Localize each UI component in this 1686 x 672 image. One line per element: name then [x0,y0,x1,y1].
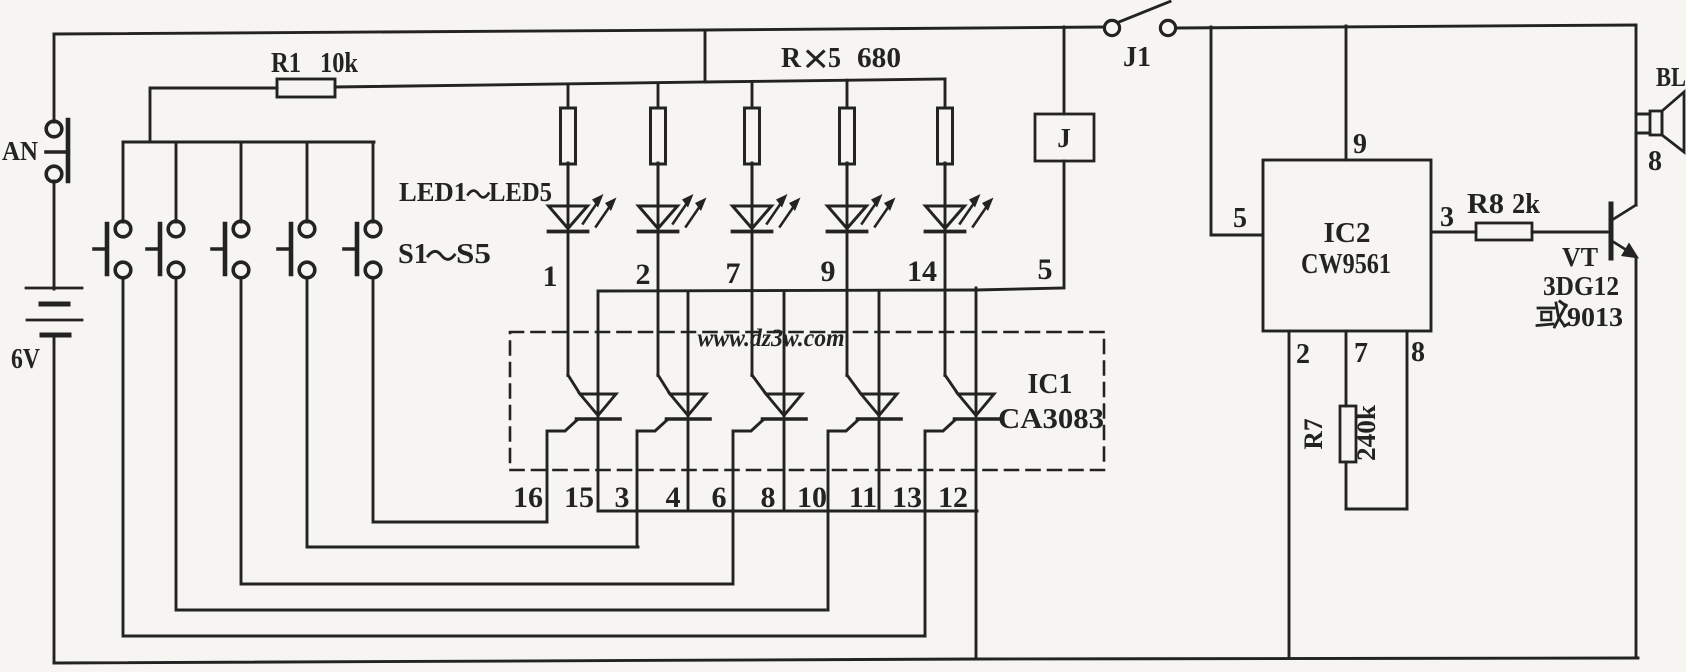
resistor R (x5 680) #2 [651,108,666,164]
wire S4 top stub [306,142,309,222]
transistor VT emitter [1612,241,1639,259]
transistor VT base bar [1609,204,1614,258]
wire Q2 base zigzag [637,420,667,547]
svg-text:www.dz3w.com: www.dz3w.com [698,325,845,352]
wire LED4 anode-cathode through [846,163,849,376]
wire bottom ground bus [54,658,1638,663]
label IC1 [1028,369,1073,400]
wire R2 top stub [567,84,570,108]
svg-text:9: 9 [1353,129,1367,160]
LED2 [639,194,707,232]
wire Q1 main vertical [597,291,600,511]
wire bus to relay J [1063,27,1066,114]
label S1~S5 [398,238,491,270]
svg-text:7: 7 [1354,338,1368,369]
svg-text:9013: 9013 [1567,302,1623,332]
svg-text:IC2: IC2 [1324,218,1371,249]
wire R5 top stub [846,80,849,108]
svg-text:R: R [781,42,802,74]
svg-text:2k: 2k [1512,189,1540,220]
wire R4 top stub [751,81,754,108]
wire speaker stubs [1636,114,1650,205]
resistor R (x5 680) #4 [840,108,855,164]
wire Q2 main vertical [687,291,690,511]
label VT [1562,242,1598,272]
wire R to LED3 [751,163,754,206]
label huo9013 [1537,302,1623,333]
label R1 10k [271,47,359,79]
label BL [1656,62,1686,92]
IC2 box [1263,160,1431,331]
pin label 5 (IC1 top) [1038,253,1053,286]
wire S1 to IC1 pin [123,278,925,636]
svg-text:2: 2 [1296,339,1310,370]
resistor R (x5 680) #5 [938,108,953,164]
svg-text:AN: AN [2,136,38,166]
resistor R7 [1340,406,1356,462]
pin label 2 (IC1 top) [636,258,651,291]
svg-text:LED5: LED5 [489,177,552,207]
svg-text:6V: 6V [11,343,40,375]
pin label 14 (IC1 top) [907,255,937,288]
transistor Q4 collector wire [847,375,861,394]
wire LED5 anode-cathode through [944,163,947,376]
resistor R1 [277,79,335,97]
wire top supply bus right [1176,25,1636,28]
wire bus drop at x705 [704,30,707,82]
speaker BL [1650,92,1684,152]
svg-text:S5: S5 [456,238,491,270]
svg-text:5: 5 [1233,203,1247,234]
LED4 [828,194,896,232]
wire R6 top stub [944,79,947,108]
transistor Q5 (IC1) [955,394,999,419]
pin label 4 (IC1 bottom) [666,481,681,514]
switch S3 [212,221,249,278]
LED1 [549,194,617,232]
pin label 8 (IC2) [1411,337,1425,368]
wire IC1 common rail [600,161,1064,291]
wire top supply bus left [54,27,1104,34]
label CA3083 [998,404,1104,435]
svg-text:240k: 240k [1352,404,1381,461]
pin label 9 (IC2) [1353,129,1367,160]
transistor Q5 collector wire [945,375,958,394]
switch S5 [344,221,381,278]
LED5 [926,194,994,232]
label IC2 [1324,218,1371,249]
svg-text:8: 8 [1411,337,1425,368]
switch S1 [94,221,131,278]
svg-text:15: 15 [564,481,594,514]
switch J1 [1104,2,1175,36]
resistor R (x5 680) #1 [561,108,576,164]
wire AN to battery [53,181,56,289]
svg-text:4: 4 [666,481,681,514]
svg-text:R7: R7 [1299,419,1328,450]
transistor VT collector [1612,205,1636,220]
transistor Q1 (IC1) [577,394,621,419]
wire IC2 pin9 [1345,26,1348,160]
svg-text:12: 12 [938,481,968,514]
pin label 8 (IC1 bottom) [761,481,776,514]
label R8 2k [1467,189,1540,220]
wire Q4 base zigzag [828,420,858,610]
wire IC2 pin8 down [1406,331,1409,509]
IC1 dashed box [510,332,1104,470]
wire AN to bus [53,34,56,122]
pin label 13 (IC1 bottom) [892,481,922,514]
svg-text:16: 16 [513,481,543,514]
switch S4 [278,221,315,278]
transistor Q2 (IC1) [667,394,711,419]
transistor Q4 (IC1) [858,394,902,419]
svg-text:R8: R8 [1467,189,1504,220]
wire resistor bus [705,79,945,82]
wire R3 top stub [657,83,660,108]
wire S4 to IC1 pin [307,278,638,547]
label J1 [1123,42,1151,73]
pin label 3 (IC2) [1440,202,1454,233]
wire IC2 pin5 [1211,27,1263,235]
svg-text:3: 3 [615,481,630,514]
svg-text:5: 5 [828,42,841,74]
wire Q4 main vertical [878,291,881,511]
pin label 15 (IC1 bottom) [564,481,594,514]
svg-text:680: 680 [857,42,901,74]
wire S3 to IC1 pin [241,278,731,584]
pin label 11 (IC1 bottom) [849,481,877,514]
wire battery negative down [53,335,56,663]
wire R1 to resistor bus [335,82,705,87]
wire Q5 main vertical to ground [975,288,978,659]
wire Q5 base zigzag [925,420,955,636]
wire R8 to VT base [1532,231,1611,234]
transistor Q1 collector wire [568,375,580,394]
svg-text:6: 6 [712,481,727,514]
relay coil J [1035,114,1094,161]
wire S2 to IC1 pin [176,278,825,610]
svg-text:10: 10 [797,481,827,514]
svg-text:9: 9 [821,255,836,288]
svg-text:BL: BL [1656,62,1686,92]
wire IC2 pin3 to R8 [1431,231,1476,234]
pin label 7 (IC1 top) [726,257,741,290]
svg-text:1: 1 [543,260,558,293]
pin label 8 (speaker) [1648,146,1662,177]
wire switch bus [123,141,374,144]
switch AN [46,120,68,182]
wire IC2 pin2 to ground [1288,331,1291,656]
wire IC2 pin7 to R7 [1345,331,1348,406]
pin label 3 (IC1 bottom) [615,481,630,514]
label Rx5 680 [781,42,901,74]
wire S5 top stub [372,142,375,222]
wire Q1 base zigzag [547,420,577,522]
wire IC1 pin row bottom [598,510,977,513]
wire R1 left + corner [150,88,277,142]
wire LED2 anode-cathode through [657,163,660,376]
pin label 5 (IC2) [1233,203,1247,234]
pin label 10 (IC1 bottom) [797,481,827,514]
wire VT emitter to ground [1635,258,1638,658]
svg-text:S1: S1 [398,238,428,270]
wire Q3 main vertical [783,291,786,511]
pin label 12 (IC1 bottom) [938,481,968,514]
wire LED1 anode-cathode through [567,163,570,376]
wire R to LED2 [657,163,660,206]
label R7 [1299,419,1328,450]
svg-text:8: 8 [761,481,776,514]
wire LED3 anode-cathode through [751,163,754,376]
svg-text:10k: 10k [320,47,359,79]
battery 6V [26,288,82,335]
svg-text:3DG12: 3DG12 [1543,271,1619,301]
svg-text:CW9561: CW9561 [1301,249,1391,280]
resistor R8 [1476,223,1532,240]
resistor R (x5 680) #3 [745,108,760,164]
svg-text:7: 7 [726,257,741,290]
transistor Q2 collector wire [658,375,670,394]
svg-text:13: 13 [892,481,922,514]
label 6V [11,343,40,375]
svg-text:2: 2 [636,258,651,291]
wire S2 top stub [175,142,178,222]
svg-text:5: 5 [1038,253,1053,286]
wire Q3 base zigzag [733,420,763,584]
svg-text:14: 14 [907,255,937,288]
switch S2 [147,221,184,278]
label CW9561 [1301,249,1391,280]
label 3DG12 [1543,271,1619,301]
wire R to LED1 [567,163,570,206]
wire R to LED5 [944,163,947,206]
svg-text:J1: J1 [1123,42,1151,73]
pin label 7 (IC2) [1354,338,1368,369]
pin label 16 (IC1 bottom) [513,481,543,514]
wire VT collector up [1635,114,1638,205]
label J [1057,123,1071,153]
svg-text:11: 11 [849,481,877,514]
svg-text:R1: R1 [271,47,301,79]
transistor Q3 collector wire [752,375,766,394]
pin label 6 (IC1 bottom) [712,481,727,514]
LED3 [733,194,801,232]
wire bus to speaker [1635,25,1638,114]
svg-text:CA3083: CA3083 [998,404,1104,435]
svg-text:3: 3 [1440,202,1454,233]
svg-text:VT: VT [1562,242,1598,272]
label AN [2,136,38,166]
pin label 1 (IC1 top) [543,260,558,293]
svg-text:J: J [1057,123,1071,153]
wire R7 to pin8 [1346,462,1407,509]
label 240k [1352,404,1381,461]
watermark [698,325,845,352]
label LED1~LED5 [399,177,552,207]
transistor Q3 (IC1) [763,394,807,419]
svg-text:LED1: LED1 [399,177,467,207]
svg-text:8: 8 [1648,146,1662,177]
pin label 9 (IC1 top) [821,255,836,288]
wire S3 top stub [240,142,243,222]
wire S1 top stub [122,142,125,222]
wire S5 to IC1 pin [373,278,547,522]
wire R to LED4 [846,163,849,206]
svg-text:IC1: IC1 [1028,369,1073,400]
pin label 2 (IC2) [1296,339,1310,370]
